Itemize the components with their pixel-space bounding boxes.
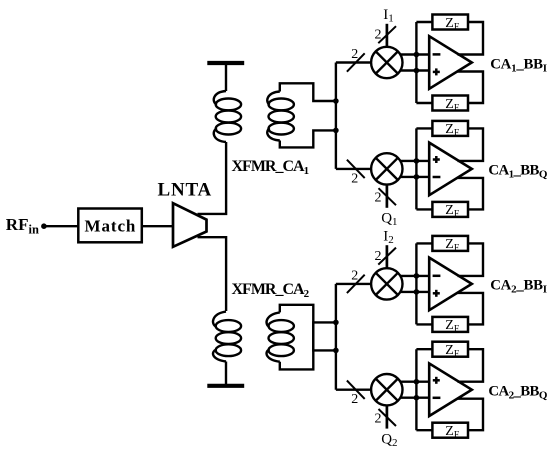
wire IF bus to mixer [336, 61, 371, 63]
impedance ZF (top feedback) [432, 236, 468, 251]
wire IF bus to mixer [336, 283, 371, 285]
wire secondary terminal B [280, 305, 336, 351]
bus-width slash (input, 2) [347, 381, 365, 399]
bus-width slash (LO, 2) [379, 409, 397, 426]
op-amp CA1_BBI [429, 36, 472, 89]
junction on IF bus (terminal B) [333, 320, 339, 326]
wire mixer to amp (+in path) [400, 53, 429, 55]
node RFin (input terminal) [41, 223, 47, 229]
wire LNTA output- to XFMR_CA2 [198, 237, 227, 311]
impedance ZF (top feedback) [432, 15, 468, 30]
inductor secondary XFMR_CA1 [267, 92, 280, 105]
junction on IF bus (terminal A) [333, 98, 339, 104]
wire to feedback ZF (top) [416, 242, 432, 244]
mixer M2 (circle-X) [371, 374, 402, 405]
junction at amp input A [414, 379, 420, 385]
pin - (inverting input) [433, 275, 441, 278]
wire to feedback ZF (bottom) [416, 323, 432, 325]
pin + (non-inverting input) [433, 158, 440, 161]
svg-text:Match: Match [85, 216, 137, 235]
wire amp output B to feedback (bottom) [458, 399, 484, 431]
op-amp CA2_BBI [429, 258, 472, 311]
bus-width slash (input, 2) [347, 275, 365, 293]
wire feedback input-side vertical [415, 349, 417, 430]
junction at amp input B [414, 395, 420, 401]
svg-text:XFMR_CA2: XFMR_CA2 [232, 281, 310, 300]
wire to feedback ZF (bottom) [416, 208, 432, 210]
mixer M1 (circle-X) [371, 47, 402, 78]
svg-text:XFMR_CA1: XFMR_CA1 [232, 158, 309, 177]
wire LO I1 [386, 24, 389, 47]
pin - (inverting input) [433, 176, 441, 179]
wire LO I2 [386, 245, 389, 268]
bus-width slash (input, 2) [347, 160, 365, 178]
svg-text:LNTA: LNTA [158, 180, 213, 201]
VDD supply bar (XFMR_CA1 primary) [207, 61, 244, 65]
inductor primary XFMR_CA2 [213, 349, 226, 361]
wire LO Q2 [386, 405, 389, 428]
impedance ZF (top feedback) [432, 121, 468, 136]
junction at amp input A [414, 158, 420, 164]
wire amp output B to feedback (bottom) [458, 72, 484, 104]
wire mixer to amp (+in path) [400, 160, 429, 162]
wire to feedback ZF (top) [416, 348, 432, 350]
wire secondary terminal A [280, 83, 336, 101]
svg-text:2: 2 [351, 268, 358, 283]
wire mixer to amp (-in path) [400, 176, 429, 178]
pin + (non-inverting input) [433, 379, 440, 382]
inductor primary XFMR_CA1 [214, 91, 226, 105]
wire to feedback ZF (bottom) [416, 429, 432, 431]
bus-width slash (LO, 2) [378, 248, 396, 265]
junction on IF bus (terminal A) [333, 348, 339, 354]
svg-text:2: 2 [375, 28, 382, 43]
wire amp output B to feedback (bottom) [458, 178, 484, 210]
bus-width slash (LO, 2) [379, 188, 397, 205]
wire supply stub [225, 362, 227, 386]
wire IF bus to mixer [336, 389, 371, 391]
impedance ZF (top feedback) [432, 342, 468, 357]
svg-text:2: 2 [351, 47, 358, 62]
wire feedback input-side vertical [415, 22, 417, 103]
wire amp output A to feedback (top) [458, 349, 484, 382]
wire mixer to amp (+in path) [400, 275, 429, 277]
mixer M2 (circle-X) [371, 268, 402, 299]
wire amp output A to feedback (top) [458, 22, 484, 55]
junction at amp input A [414, 273, 420, 279]
svg-text:2: 2 [351, 392, 358, 407]
bus-width slash (input, 2) [347, 53, 365, 71]
matching network (Match box) [78, 209, 142, 243]
VDD supply bar (XFMR_CA2 primary) [207, 384, 244, 388]
wire mixer to amp (-in path) [400, 69, 429, 71]
wire LO Q1 [386, 185, 389, 208]
wire RFin to Match [44, 225, 78, 227]
op-amp CA1_BBQ [429, 143, 472, 196]
wire to feedback ZF (bottom) [416, 102, 432, 104]
wire mixer to amp (-in path) [400, 291, 429, 293]
amplifier LNTA (trapezoid symbol) [173, 203, 207, 247]
svg-text:CA2_BBI: CA2_BBI [490, 278, 547, 296]
junction at amp input B [414, 68, 420, 74]
bus-width slash (LO, 2) [378, 26, 396, 43]
svg-text:2: 2 [375, 411, 382, 426]
wire secondary terminal B [280, 130, 336, 147]
inductor secondary XFMR_CA2 [267, 349, 280, 362]
wire Match to LNTA [142, 225, 173, 227]
wire LNTA output+ to XFMR_CA1 [198, 142, 227, 214]
wire secondary terminal A [280, 322, 336, 369]
wire feedback input-side vertical [415, 243, 417, 324]
wire to feedback ZF (top) [416, 21, 432, 23]
pin - (inverting input) [433, 397, 441, 400]
pin + (non-inverting input) [433, 71, 440, 74]
pin - (inverting input) [433, 53, 441, 56]
wire amp output A to feedback (top) [458, 128, 484, 161]
svg-text:2: 2 [351, 171, 358, 186]
wire IF bus to mixer [336, 168, 371, 170]
wire mixer to amp (-in path) [400, 397, 429, 399]
wire amp output B to feedback (bottom) [458, 293, 484, 325]
junction at amp input B [414, 174, 420, 180]
wire IF bus CA2 (vertical) [335, 284, 337, 390]
junction at amp input B [414, 289, 420, 295]
junction on IF bus (terminal B) [333, 128, 339, 134]
wire mixer to amp (+in path) [400, 381, 429, 383]
svg-text:CA1_BBI: CA1_BBI [490, 56, 547, 74]
op-amp CA2_BBQ [429, 363, 472, 416]
wire IF bus CA1 (vertical) [335, 63, 337, 169]
impedance ZF (bottom feedback) [432, 96, 468, 111]
impedance ZF (bottom feedback) [432, 317, 468, 332]
wire feedback input-side vertical [415, 128, 417, 209]
junction at amp input A [414, 52, 420, 58]
impedance ZF (bottom feedback) [432, 202, 468, 217]
pin + (non-inverting input) [433, 292, 440, 295]
impedance ZF (bottom feedback) [432, 423, 468, 438]
wire supply stub [225, 63, 227, 91]
mixer M1 (circle-X) [371, 153, 402, 184]
svg-text:2: 2 [375, 249, 382, 264]
wire to feedback ZF (top) [416, 127, 432, 129]
wire amp output A to feedback (top) [458, 243, 484, 276]
svg-text:2: 2 [375, 191, 382, 206]
